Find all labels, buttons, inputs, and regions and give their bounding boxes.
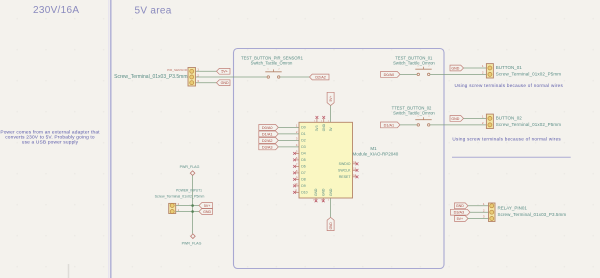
svg-text:TTEST_BUTTON_02: TTEST_BUTTON_02	[392, 105, 432, 110]
svg-text:RELAY_PIN01: RELAY_PIN01	[498, 205, 528, 210]
svg-text:D5: D5	[301, 158, 306, 162]
svg-text:GND: GND	[456, 204, 464, 208]
svg-text:GND: GND	[451, 66, 459, 70]
svg-text:D2: D2	[301, 139, 306, 143]
svg-text:D3: D3	[301, 145, 306, 149]
svg-text:230V/16A: 230V/16A	[33, 5, 79, 16]
svg-text:D6: D6	[301, 165, 306, 169]
svg-text:Screw_Terminal_01x02_P5mm: Screw_Terminal_01x02_P5mm	[496, 122, 561, 127]
svg-text:5V+: 5V+	[329, 96, 333, 102]
svg-text:M1: M1	[370, 146, 377, 151]
svg-text:D0/A0: D0/A0	[384, 73, 395, 77]
svg-text:D3/A3: D3/A3	[262, 145, 273, 149]
svg-text:Screw_Terminal_01x02_P5mm: Screw_Terminal_01x02_P5mm	[496, 72, 561, 77]
svg-text:use a USB power supply: use a USB power supply	[22, 139, 79, 145]
svg-text:GND: GND	[322, 188, 326, 196]
svg-text:GND: GND	[221, 81, 229, 85]
svg-text:D9: D9	[301, 184, 306, 188]
svg-text:SWCLK: SWCLK	[338, 169, 351, 173]
svg-text:3V3: 3V3	[315, 125, 319, 131]
svg-text:Screw_Terminal_01x02_P5mm: Screw_Terminal_01x02_P5mm	[155, 194, 205, 198]
svg-text:5V+: 5V+	[221, 70, 228, 74]
svg-text:D0: D0	[301, 126, 306, 130]
svg-text:D3/A3: D3/A3	[454, 211, 465, 215]
svg-text:Using screw terminals because: Using screw terminals because of normal …	[452, 136, 561, 141]
svg-text:D4: D4	[301, 152, 306, 156]
svg-text:PIR_SENSOR1: PIR_SENSOR1	[167, 68, 189, 72]
svg-text:PWR_FLAG: PWR_FLAG	[180, 165, 200, 169]
svg-text:D7: D7	[301, 171, 306, 175]
svg-text:D2/A2: D2/A2	[315, 75, 326, 79]
svg-text:D1: D1	[301, 132, 306, 136]
svg-text:D2/A2: D2/A2	[262, 139, 273, 143]
svg-text:Switch_Tactile_Omron: Switch_Tactile_Omron	[251, 61, 293, 66]
svg-text:GND: GND	[203, 210, 211, 214]
svg-text:D8: D8	[301, 178, 306, 182]
svg-text:GND: GND	[329, 188, 333, 196]
svg-text:GND: GND	[322, 123, 326, 131]
svg-text:D1/A1: D1/A1	[262, 132, 273, 136]
svg-text:Module_XIAO-RP2040: Module_XIAO-RP2040	[353, 152, 399, 157]
svg-text:11: 11	[294, 189, 297, 193]
svg-text:5V area: 5V area	[135, 6, 172, 17]
svg-text:5V+: 5V+	[457, 217, 464, 221]
svg-text:Screw_Terminal_01x03_P3.5mm: Screw_Terminal_01x03_P3.5mm	[114, 74, 187, 80]
svg-text:Switch_Tactile_Omron: Switch_Tactile_Omron	[393, 111, 435, 116]
svg-text:RESET: RESET	[339, 175, 352, 179]
svg-text:Using screw terminals because: Using screw terminals because of normal …	[455, 83, 564, 88]
svg-text:SWDIO: SWDIO	[339, 162, 351, 166]
svg-text:BUTTON_02: BUTTON_02	[496, 115, 522, 120]
svg-text:GND: GND	[329, 222, 333, 230]
svg-text:Screw_Terminal_01x03_P3.5mm: Screw_Terminal_01x03_P3.5mm	[498, 212, 567, 217]
svg-text:D10: D10	[301, 191, 307, 195]
svg-text:GND: GND	[451, 117, 459, 121]
svg-text:10: 10	[294, 182, 298, 186]
svg-text:D1/A1: D1/A1	[384, 123, 395, 127]
svg-text:POWER_INPUT1: POWER_INPUT1	[176, 189, 202, 193]
svg-text:D0/A0: D0/A0	[262, 126, 273, 130]
svg-text:BUTTON_01: BUTTON_01	[496, 65, 522, 70]
svg-text:GND: GND	[314, 188, 318, 196]
svg-text:PWR_FLAG: PWR_FLAG	[182, 241, 202, 245]
svg-text:5V+: 5V+	[204, 204, 211, 208]
